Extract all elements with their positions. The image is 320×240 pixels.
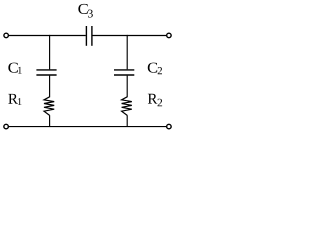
wire right branch upper bbox=[126, 35, 128, 69]
capacitor C3 bbox=[86, 26, 92, 46]
wire right branch lower bbox=[126, 115, 128, 126]
wire left branch upper bbox=[49, 35, 51, 69]
terminal top-right bbox=[167, 33, 172, 38]
terminal top-left bbox=[4, 33, 8, 38]
capacitor C1 bbox=[36, 70, 56, 75]
terminal bottom-right bbox=[167, 124, 172, 129]
resistor R2 bbox=[122, 97, 132, 116]
label R1 bbox=[8, 94, 21, 105]
label C3 bbox=[78, 4, 92, 18]
wire left branch lower bbox=[49, 115, 51, 126]
wire right branch middle bbox=[126, 76, 128, 98]
label C2 bbox=[148, 63, 162, 75]
wire top rail left segment bbox=[9, 35, 86, 37]
capacitor C2 bbox=[114, 70, 134, 75]
label C1 bbox=[8, 63, 21, 74]
terminal bottom-left bbox=[4, 124, 9, 129]
wire top rail right segment bbox=[93, 35, 167, 37]
resistor R1 bbox=[44, 97, 54, 116]
wire left branch middle bbox=[49, 76, 51, 98]
wire bottom rail bbox=[9, 126, 166, 128]
label R2 bbox=[148, 94, 162, 107]
